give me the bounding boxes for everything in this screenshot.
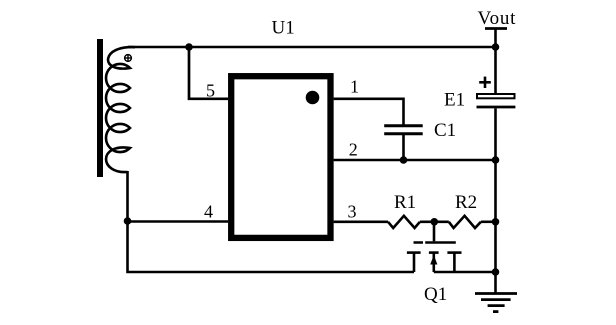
svg-text:Q1: Q1 [424,284,447,305]
ground symbol [475,294,517,312]
capacitor E1 (polarized) [477,77,516,107]
resistor R2 [449,216,481,228]
wire: winding bottom down to node A [126,171,129,221]
Q1 gate lead [433,222,436,242]
svg-text:2: 2 [349,140,358,160]
svg-text:3: 3 [348,202,357,222]
label Q1 [424,284,447,305]
Q1 source lead [453,253,456,272]
wire: R1 to R2 (through gate node) [420,221,449,224]
svg-text:U1: U1 [272,18,295,39]
wire: top rail from transformer top to Vout node [128,46,496,49]
pin number 3 [348,202,357,222]
Q1 drain lead [413,253,416,272]
junction node A (coil bottom / pin 4 / Q1 drain) [124,217,132,225]
pin number 4 [204,202,213,222]
wire: node A down and across to Q1 drain [128,221,415,272]
wire: pin 4 [128,220,229,223]
Vout terminal bar [485,27,507,30]
wire: pin 5 branch (down from top rail, into pin 5) [189,47,228,99]
wire: Q1 source/body to ground rail [434,271,496,274]
Q1 gate bar (drawn as two strokes with a hairline gap) [414,241,456,244]
junction dot: top rail at Vout [492,43,500,51]
pin number 2 [349,140,358,160]
wire: Vout rail lower segment down to ground [494,108,497,293]
inductor winding L (primary coil) [106,47,135,172]
svg-text:C1: C1 [434,120,456,141]
junction dot: pin 2 wire at Vout rail [492,156,500,164]
wire: C1 bottom to pin 2 rail [402,135,405,160]
resistor R1 [388,216,420,228]
wire: pin 1 to C1 top [334,99,404,125]
label E1 [444,89,465,110]
svg-text:Vout: Vout [478,8,517,29]
svg-text:4: 4 [204,202,213,222]
wire: Vout rail upper segment [494,29,497,94]
wire: R2 to Vout rail [481,221,496,224]
pin number 5 [206,81,215,101]
label R1 [394,192,416,213]
IC U1 body [231,76,330,238]
svg-text:1: 1 [350,77,359,97]
label Vout [478,8,517,29]
junction dot: top rail / pin 5 branch [185,43,193,51]
Q1 body lead with arrow [430,253,437,272]
polarity mark (circled plus) on winding [124,54,132,62]
junction dot: bottom of Vout rail [492,268,500,276]
junction dot: R1/R2 gate node [431,218,439,226]
svg-text:5: 5 [206,81,215,101]
wire: pin 3 to R1 [334,221,388,224]
transformer core bar [97,39,103,177]
pin number 1 [350,77,359,97]
U1 pin-1 orientation dot [306,91,320,105]
label U1 [272,18,295,39]
label C1 [434,120,456,141]
svg-text:R2: R2 [455,192,477,213]
junction dot: R2 at Vout rail [492,218,500,226]
svg-text:R1: R1 [394,192,416,213]
label R2 [455,192,477,213]
svg-text:E1: E1 [444,89,465,110]
junction dot: C1 on pin 2 wire [400,156,408,164]
wire: pin 2 to Vout rail [334,159,496,162]
Q1 channel segments (drain / body / source) [407,251,462,254]
capacitor C1 [384,126,423,134]
